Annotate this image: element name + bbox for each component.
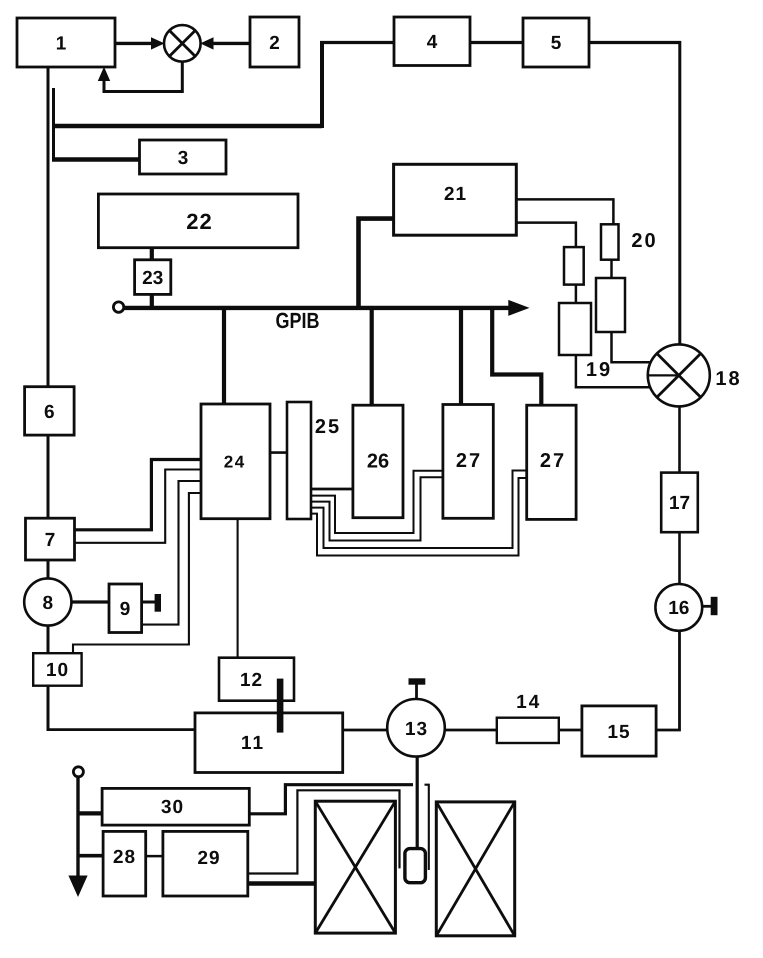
- block 24: [201, 404, 270, 519]
- block 20: [601, 224, 619, 259]
- arrowhead bottom down: [68, 876, 87, 898]
- label 25: [316, 419, 339, 433]
- valve13 top stem: [415, 683, 418, 699]
- wire valve16 to box15: [656, 630, 679, 730]
- block 7: [26, 518, 75, 560]
- wire box20 to box20b: [610, 260, 613, 278]
- valve13 top bar: [409, 678, 426, 684]
- block 6: [25, 387, 75, 435]
- wire W5 box25 to box27b: [311, 478, 527, 556]
- wire box19b to mixer18 lower: [576, 355, 655, 387]
- wire L3 box9 to box24: [142, 481, 201, 625]
- label 18: [717, 371, 739, 385]
- wire top rail to box4: [320, 41, 394, 44]
- block 23: [135, 260, 171, 295]
- wire bus drop to box24: [222, 308, 226, 405]
- block 29: [163, 831, 248, 896]
- block 19b: [559, 303, 591, 355]
- wire box24 to box25: [270, 451, 287, 454]
- block 30: [102, 788, 249, 825]
- wire L2 box7 to box24: [75, 470, 202, 543]
- wire box22 to box23: [150, 246, 154, 261]
- block 9: [109, 584, 142, 633]
- wire thick to box3: [52, 157, 140, 161]
- wire box24 down to box12: [237, 519, 239, 658]
- arrowhead into mixer M1 left: [151, 37, 165, 49]
- label 14: [517, 695, 539, 708]
- wire box1 to mixer M1: [115, 42, 153, 45]
- block 21: [394, 164, 517, 235]
- wire W2 box25 to box27a: [311, 471, 443, 533]
- wire W3 box25 to box27a: [311, 477, 443, 540]
- block 1: [17, 18, 115, 67]
- mixer M1: [164, 25, 201, 62]
- wire box2 to mixer M1: [211, 42, 250, 45]
- wire valve13 down to sample box: [416, 757, 419, 849]
- arrowhead feedback up into box1: [98, 67, 110, 81]
- wire box4 to box5: [470, 41, 523, 44]
- block 17: [661, 473, 698, 533]
- block 19a: [564, 247, 584, 285]
- magnet coil left: [315, 801, 395, 933]
- GPIB bus terminal circle: [113, 302, 123, 312]
- wire right rail down to mixer18: [678, 41, 681, 346]
- label 20: [632, 233, 655, 247]
- wire stub to box28: [78, 854, 103, 858]
- wire feedback mixer M1 to box1: [104, 62, 182, 92]
- valve bar box9: [155, 594, 161, 612]
- wire thick rail y126 to top corner: [52, 124, 322, 128]
- block 20b: [596, 278, 625, 332]
- GPIB bus arrowhead: [508, 300, 529, 316]
- wire box21 link down to bus: [359, 219, 395, 308]
- wire valve13 to box11: [343, 729, 388, 732]
- wire W4 box25 to box27b: [311, 471, 527, 549]
- wire bus drop to box26: [370, 308, 374, 406]
- wire bottom arrow vertical: [76, 777, 79, 879]
- magnet coil right: [436, 802, 514, 936]
- wire parallel stub near left rail: [52, 88, 55, 161]
- wire vertical x322: [320, 41, 324, 128]
- wire box21 to box20: [516, 199, 613, 224]
- block 11: [195, 713, 343, 773]
- wire box30 to magnet gap right flank: [249, 785, 413, 814]
- block 27a: [443, 405, 493, 519]
- wire L1 box7 to box24: [75, 460, 202, 530]
- block 27b: [527, 405, 576, 519]
- block 25: [287, 402, 311, 519]
- wire box11 to left rail: [47, 728, 196, 731]
- probe bar between 12 and 11: [277, 679, 284, 733]
- block 5: [523, 18, 589, 67]
- block 26: [353, 405, 403, 518]
- valve 16: [655, 584, 702, 631]
- block 12: [219, 658, 294, 701]
- wire box19a to box19b: [575, 285, 578, 303]
- block 3: [140, 140, 227, 174]
- label 19: [587, 362, 609, 376]
- wire box29 to magnet gap left flank: [248, 790, 400, 873]
- arrowhead into mixer M1 right: [200, 37, 213, 49]
- block 22: [98, 194, 298, 248]
- wire box17 to valve16: [678, 532, 681, 585]
- valve16 side bar: [711, 597, 718, 615]
- sample box: [405, 849, 426, 883]
- circle 8: [24, 578, 71, 625]
- wire bus drop with jog to box27b: [492, 308, 541, 406]
- wire box5 to right corner: [589, 41, 681, 44]
- wire box28 to box29: [146, 855, 163, 858]
- wire box15 to box14: [559, 729, 582, 732]
- wire mixer18 to box17: [678, 405, 681, 473]
- mixer 18: [648, 344, 710, 406]
- label GPIB: [276, 313, 318, 329]
- wire L4 box10 to box24: [73, 493, 201, 654]
- wire box20b to mixer18 upper: [612, 332, 657, 362]
- wire left rail from box1 down to box11 line: [47, 67, 50, 730]
- wire box23 to GPIB bus: [150, 293, 154, 308]
- wire box9 valve stub: [142, 601, 156, 604]
- wire box14 to valve13: [445, 729, 497, 732]
- bottom terminal circle: [73, 767, 83, 777]
- valve16 side stub: [702, 605, 712, 608]
- GPIB bus: [125, 306, 512, 310]
- block 14: [497, 718, 559, 743]
- block 2: [250, 17, 299, 67]
- wire stub to box30: [78, 811, 102, 815]
- wire W1 box25 to box26: [311, 488, 353, 491]
- valve 13: [387, 699, 445, 757]
- block 10: [33, 653, 81, 686]
- wire bus drop to box27a: [459, 308, 463, 406]
- block 15: [582, 706, 656, 756]
- wire box29 thick to magnet coil: [248, 881, 315, 886]
- wire right flank hook: [425, 785, 429, 870]
- wire circle8 to box9: [71, 600, 109, 603]
- wire box21 to box19a: [516, 223, 576, 248]
- block 4: [394, 17, 470, 66]
- block 28: [103, 831, 146, 896]
